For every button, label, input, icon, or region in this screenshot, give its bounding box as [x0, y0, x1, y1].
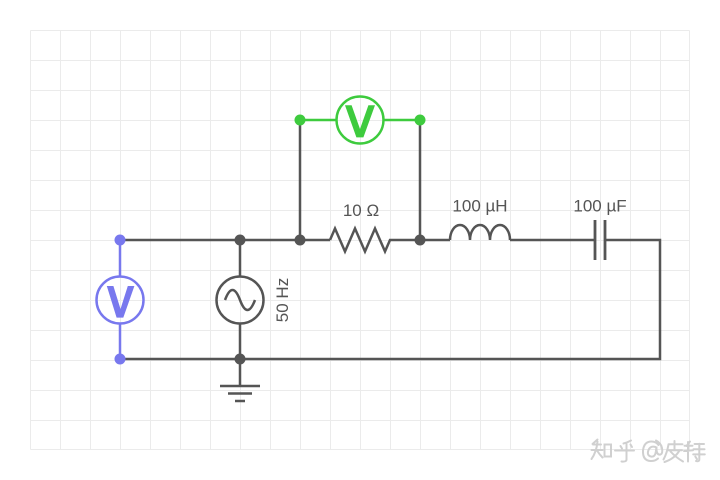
- wire right side and bottom rail: [120, 240, 660, 359]
- svg-text:100 µF: 100 µF: [573, 197, 626, 216]
- resistor R1 10 Ω: [330, 229, 450, 252]
- ground: [220, 359, 260, 401]
- node purple top: [115, 235, 126, 246]
- node junction at source top: [235, 235, 246, 246]
- node junction at resistor left: [295, 235, 306, 246]
- svg-text:50 Hz: 50 Hz: [273, 278, 292, 322]
- node junction at resistor right: [415, 235, 426, 246]
- voltmeter M2 green: [300, 97, 420, 144]
- svg-text:100 µH: 100 µH: [452, 197, 507, 216]
- capacitor C1 100 µF: [595, 220, 605, 260]
- inductor L1 100 µH: [450, 225, 595, 240]
- svg-text:10 Ω: 10 Ω: [343, 201, 379, 220]
- node green right: [415, 115, 426, 126]
- node purple bottom: [115, 354, 126, 365]
- watermark 知乎 @皮特: [592, 440, 705, 463]
- wire voltmeter tap left: [299, 120, 302, 240]
- node junction at source bottom: [235, 354, 246, 365]
- node green left: [295, 115, 306, 126]
- voltmeter M1 purple: [97, 240, 144, 359]
- wire voltmeter tap right: [419, 120, 422, 240]
- wire main top rail: [120, 239, 330, 242]
- AC source V1: [217, 240, 264, 359]
